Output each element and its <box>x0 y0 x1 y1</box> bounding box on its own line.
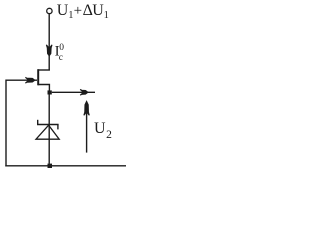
wire output <box>52 91 95 93</box>
transistor VT1 <box>38 69 50 91</box>
wire base <box>6 79 37 81</box>
zener diode VD1 <box>36 120 59 139</box>
current arrow base (right) <box>25 77 34 83</box>
wire left rail <box>5 80 7 167</box>
terminal U1 (input) <box>47 8 52 13</box>
current arrow Ic0 (down) <box>46 45 52 56</box>
node A emitter junction <box>48 90 52 94</box>
svg-text:0: 0 <box>59 43 64 53</box>
wire emitter to zener <box>48 95 50 164</box>
svg-text:U1+ΔU1: U1+ΔU1 <box>57 2 109 21</box>
node B bottom junction <box>48 164 53 168</box>
svg-text:c: c <box>59 53 63 63</box>
voltage arrow U2 (up) <box>84 101 89 152</box>
current arrow output (right) <box>80 89 88 95</box>
wire bottom rail <box>5 165 126 167</box>
wire collector feed <box>48 14 50 70</box>
svg-text:U2: U2 <box>94 120 112 141</box>
